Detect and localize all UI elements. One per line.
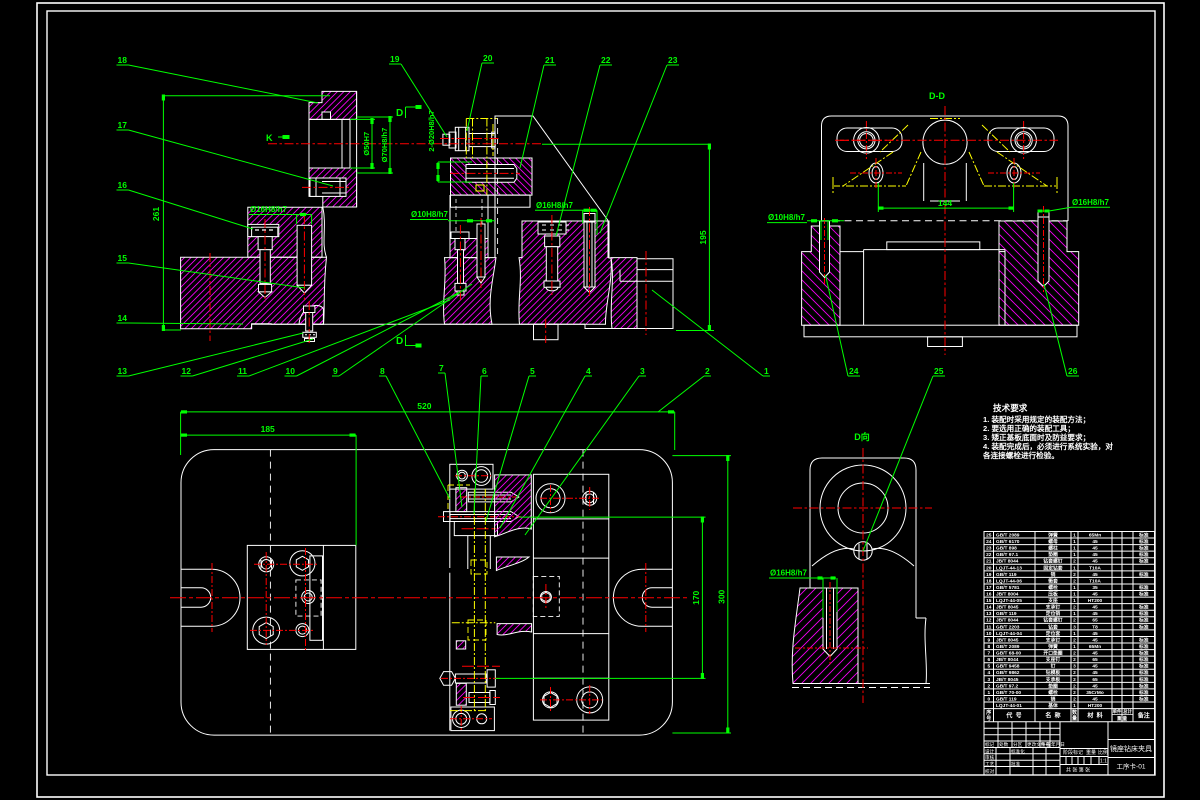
svg-text:23: 23 — [986, 546, 992, 552]
svg-text:45: 45 — [1092, 592, 1098, 598]
svg-text:8: 8 — [380, 366, 385, 376]
svg-text:300: 300 — [717, 589, 727, 603]
svg-text:JB/T 8004: JB/T 8004 — [996, 592, 1019, 598]
svg-text:65Mn: 65Mn — [1089, 644, 1101, 650]
svg-text:年月日: 年月日 — [1051, 741, 1065, 748]
svg-text:22: 22 — [601, 55, 611, 65]
svg-text:标准: 标准 — [1138, 591, 1149, 598]
svg-text:2: 2 — [1073, 670, 1076, 676]
svg-text:支承钉: 支承钉 — [1046, 636, 1061, 643]
svg-text:11: 11 — [986, 624, 991, 630]
svg-text:定位套: 定位套 — [1046, 630, 1061, 637]
svg-text:技术要求: 技术要求 — [993, 402, 1028, 413]
svg-text:共 张 第 张: 共 张 第 张 — [1066, 767, 1090, 774]
svg-text:GB/T 9862: GB/T 9862 — [996, 670, 1020, 676]
svg-text:10: 10 — [986, 631, 992, 637]
svg-text:45: 45 — [1092, 605, 1098, 611]
svg-text:1: 1 — [1073, 546, 1076, 552]
svg-text:HT200: HT200 — [1088, 598, 1103, 604]
svg-text:支承板: 支承板 — [1046, 676, 1061, 683]
svg-text:标准: 标准 — [1138, 669, 1149, 676]
svg-text:Ø10H8/h7: Ø10H8/h7 — [768, 213, 805, 222]
svg-text:阶段标记: 阶段标记 — [1063, 749, 1083, 756]
svg-text:支承钉: 支承钉 — [1046, 604, 1061, 611]
svg-text:签名: 签名 — [1041, 741, 1050, 748]
svg-text:8: 8 — [987, 644, 990, 650]
svg-text:12: 12 — [182, 366, 192, 376]
svg-text:标准: 标准 — [1138, 532, 1149, 539]
svg-text:15: 15 — [986, 598, 992, 604]
svg-text:2: 2 — [1073, 683, 1076, 689]
svg-text:45: 45 — [1092, 651, 1098, 657]
svg-text:各连接螺栓进行检验。: 各连接螺栓进行检验。 — [982, 450, 1059, 460]
svg-text:标准: 标准 — [1138, 551, 1149, 558]
svg-text:JB/T 8045: JB/T 8045 — [996, 605, 1019, 611]
svg-text:16: 16 — [118, 180, 128, 190]
svg-text:LQJT-44-04: LQJT-44-04 — [996, 631, 1022, 637]
svg-text:3: 3 — [1073, 664, 1076, 670]
svg-text:总计: 总计 — [1123, 708, 1132, 715]
svg-text:1: 1 — [1073, 598, 1076, 604]
svg-text:GB/T 119: GB/T 119 — [996, 611, 1017, 617]
svg-text:2: 2 — [1073, 637, 1076, 643]
svg-text:JB/T 8045: JB/T 8045 — [996, 677, 1019, 683]
svg-text:9: 9 — [987, 637, 990, 643]
svg-text:标准: 标准 — [1138, 643, 1149, 650]
svg-text:Ø16H8/h7: Ø16H8/h7 — [1072, 198, 1109, 207]
svg-text:钻套螺钉: 钻套螺钉 — [1043, 617, 1062, 624]
svg-text:2: 2 — [1073, 572, 1076, 578]
svg-text:GB/T 2089: GB/T 2089 — [996, 644, 1020, 650]
svg-text:GB/T 9458: GB/T 9458 — [996, 664, 1020, 670]
svg-text:螺栓: 螺栓 — [1048, 584, 1058, 591]
svg-text:1: 1 — [1073, 585, 1076, 591]
svg-text:195: 195 — [698, 230, 708, 244]
svg-text:处数: 处数 — [999, 741, 1009, 748]
svg-text:标准: 标准 — [1138, 538, 1149, 545]
svg-text:JB/T 8044: JB/T 8044 — [996, 657, 1019, 663]
svg-text:2: 2 — [1073, 559, 1076, 565]
svg-text:标准: 标准 — [1138, 545, 1149, 552]
svg-text:JB/T 8045: JB/T 8045 — [996, 637, 1019, 643]
svg-text:14: 14 — [986, 605, 992, 611]
svg-text:1: 1 — [987, 690, 990, 696]
svg-text:标准: 标准 — [1138, 584, 1149, 591]
svg-text:7: 7 — [987, 651, 990, 657]
svg-text:25: 25 — [986, 533, 992, 539]
svg-text:销: 销 — [1051, 571, 1056, 578]
svg-text:12: 12 — [986, 618, 992, 624]
svg-text:17: 17 — [986, 585, 992, 591]
svg-text:垫圈: 垫圈 — [1048, 682, 1058, 689]
svg-text:2: 2 — [705, 366, 710, 376]
svg-text:10: 10 — [286, 366, 296, 376]
svg-text:LQJT-44-13: LQJT-44-13 — [996, 565, 1022, 571]
svg-text:镜座钻床夹具: 镜座钻床夹具 — [1110, 744, 1152, 753]
svg-text:GB/T 119: GB/T 119 — [996, 572, 1017, 578]
svg-text:批准: 批准 — [1011, 761, 1021, 768]
svg-text:HT200: HT200 — [1088, 703, 1103, 709]
svg-text:备注: 备注 — [1137, 712, 1150, 720]
svg-text:支座: 支座 — [1048, 597, 1058, 604]
svg-text:Ø16H8/h7: Ø16H8/h7 — [536, 201, 573, 210]
svg-text:20: 20 — [986, 565, 992, 571]
svg-text:名 称: 名 称 — [1045, 712, 1060, 720]
svg-text:1: 1 — [1073, 631, 1076, 637]
svg-text:GB/T 97.2: GB/T 97.2 — [996, 683, 1018, 689]
svg-text:JB/T 8044: JB/T 8044 — [996, 559, 1019, 565]
svg-text:14: 14 — [118, 313, 128, 323]
svg-text:GB/T 2203: GB/T 2203 — [996, 624, 1020, 630]
svg-text:GB/T 5781: GB/T 5781 — [996, 585, 1020, 591]
svg-text:35: 35 — [1092, 585, 1098, 591]
svg-text:校对: 校对 — [985, 768, 995, 775]
svg-text:0: 0 — [987, 696, 990, 702]
svg-text:1: 1 — [1073, 703, 1076, 709]
svg-text:13: 13 — [986, 611, 992, 617]
svg-text:量: 量 — [1072, 715, 1077, 722]
svg-text:11: 11 — [238, 366, 247, 376]
svg-text:Ø16H8/h7: Ø16H8/h7 — [770, 569, 807, 578]
svg-text:标准: 标准 — [1138, 610, 1149, 617]
svg-text:GB/T 898: GB/T 898 — [996, 546, 1017, 552]
svg-text:标准: 标准 — [1138, 558, 1149, 565]
svg-text:24: 24 — [849, 366, 859, 376]
svg-text:45: 45 — [1092, 664, 1098, 670]
svg-text:重 量: 重 量 — [1117, 715, 1128, 722]
svg-text:5: 5 — [987, 664, 990, 670]
svg-text:261: 261 — [151, 207, 161, 221]
svg-text:1:1: 1:1 — [1100, 759, 1107, 765]
svg-text:标准: 标准 — [1138, 571, 1149, 578]
svg-text:LQJT-44-06: LQJT-44-06 — [996, 578, 1022, 584]
svg-text:设计: 设计 — [985, 748, 995, 755]
svg-text:1: 1 — [1073, 592, 1076, 598]
svg-text:5: 5 — [530, 366, 535, 376]
svg-text:1: 1 — [1073, 533, 1076, 539]
svg-text:45: 45 — [1092, 696, 1098, 702]
svg-text:18: 18 — [986, 578, 992, 584]
svg-text:45: 45 — [1092, 683, 1098, 689]
svg-text:6: 6 — [987, 657, 990, 663]
svg-text:GB/T 70-00: GB/T 70-00 — [996, 690, 1021, 696]
svg-text:6: 6 — [482, 366, 487, 376]
svg-text:1: 1 — [1073, 552, 1076, 558]
svg-text:35CrMo: 35CrMo — [1086, 690, 1104, 696]
svg-text:4: 4 — [987, 670, 990, 676]
svg-text:T10A: T10A — [1089, 578, 1101, 584]
svg-text:2: 2 — [1073, 696, 1076, 702]
svg-text:标准化: 标准化 — [1011, 748, 1025, 755]
svg-text:2: 2 — [1073, 578, 1076, 584]
svg-text:21: 21 — [545, 55, 555, 65]
svg-text:2: 2 — [1073, 618, 1076, 624]
svg-text:标准: 标准 — [1138, 689, 1149, 696]
svg-text:Ø10H8/h7: Ø10H8/h7 — [411, 210, 448, 219]
svg-text:2: 2 — [1073, 651, 1076, 657]
svg-text:25: 25 — [934, 366, 944, 376]
svg-text:7: 7 — [439, 363, 444, 373]
svg-text:材 料: 材 料 — [1086, 712, 1102, 720]
svg-text:弹簧: 弹簧 — [1048, 532, 1058, 539]
svg-text:1: 1 — [1073, 565, 1076, 571]
svg-text:1: 1 — [764, 366, 769, 376]
svg-text:开口垫圈: 开口垫圈 — [1043, 650, 1062, 657]
svg-text:20: 20 — [483, 53, 493, 63]
svg-text:标准: 标准 — [1138, 663, 1149, 670]
svg-text:螺柱: 螺柱 — [1048, 545, 1058, 552]
svg-text:标准: 标准 — [1138, 676, 1149, 683]
svg-text:65: 65 — [1092, 618, 1098, 624]
svg-text:标准: 标准 — [1138, 636, 1149, 643]
svg-text:45: 45 — [1092, 546, 1098, 552]
svg-text:标准: 标准 — [1138, 650, 1149, 657]
svg-text:45: 45 — [1092, 539, 1098, 545]
svg-text:GB/T 2089: GB/T 2089 — [996, 533, 1020, 539]
svg-text:17: 17 — [118, 120, 128, 130]
svg-text:GB/T 119: GB/T 119 — [996, 696, 1017, 702]
svg-text:26: 26 — [1068, 366, 1078, 376]
svg-text:GB/T 6170: GB/T 6170 — [996, 539, 1020, 545]
svg-text:D: D — [396, 108, 403, 119]
svg-text:2: 2 — [1073, 690, 1076, 696]
svg-text:JB/T 8044: JB/T 8044 — [996, 618, 1019, 624]
svg-text:LQJT-44-05: LQJT-44-05 — [996, 598, 1022, 604]
svg-text:45: 45 — [1092, 559, 1098, 565]
svg-text:工艺: 工艺 — [985, 762, 995, 767]
svg-text:标记: 标记 — [985, 741, 995, 748]
svg-text:销: 销 — [1051, 695, 1056, 702]
svg-text:3: 3 — [640, 366, 645, 376]
svg-text:45: 45 — [1092, 572, 1098, 578]
svg-text:D-D: D-D — [929, 91, 945, 101]
svg-text:钉: 钉 — [1051, 663, 1056, 670]
svg-text:Ø16H8/h7: Ø16H8/h7 — [250, 205, 287, 214]
svg-text:21: 21 — [986, 559, 992, 565]
svg-text:45: 45 — [1092, 670, 1098, 676]
svg-text:分区: 分区 — [1013, 741, 1023, 748]
svg-text:45: 45 — [1092, 631, 1098, 637]
svg-text:3: 3 — [987, 677, 990, 683]
svg-text:螺栓: 螺栓 — [1048, 689, 1058, 696]
svg-text:垫圈: 垫圈 — [1048, 551, 1058, 558]
svg-text:代 号: 代 号 — [1005, 712, 1021, 720]
svg-text:单件: 单件 — [1113, 708, 1122, 715]
svg-text:支座钉: 支座钉 — [1046, 656, 1061, 663]
svg-text:13: 13 — [118, 366, 128, 376]
svg-text:1: 1 — [1073, 539, 1076, 545]
svg-text:16: 16 — [986, 592, 992, 598]
svg-text:65: 65 — [1092, 677, 1098, 683]
svg-text:标准: 标准 — [1138, 695, 1149, 702]
svg-text:标准: 标准 — [1138, 604, 1149, 611]
svg-text:Ø70H8/h7: Ø70H8/h7 — [380, 128, 389, 163]
svg-text:45: 45 — [1092, 552, 1098, 558]
svg-text:钻套螺钉: 钻套螺钉 — [1043, 558, 1062, 565]
svg-text:15: 15 — [118, 253, 128, 263]
svg-text:标准: 标准 — [1138, 656, 1149, 663]
svg-text:185: 185 — [261, 424, 275, 434]
svg-text:19: 19 — [986, 572, 992, 578]
svg-text:钻套: 钻套 — [1048, 623, 1058, 630]
svg-text:螺母: 螺母 — [1048, 538, 1058, 545]
svg-text:衝套: 衝套 — [1047, 577, 1058, 584]
svg-text:钻模板: 钻模板 — [1046, 669, 1061, 676]
svg-text:GB/T 68-00: GB/T 68-00 — [996, 651, 1021, 657]
svg-text:D: D — [396, 336, 403, 347]
svg-text:号: 号 — [986, 715, 991, 722]
svg-text:22: 22 — [986, 552, 992, 558]
svg-text:24: 24 — [986, 539, 992, 545]
svg-text:GB/T 97.1: GB/T 97.1 — [996, 552, 1018, 558]
svg-text:144: 144 — [938, 198, 952, 208]
svg-text:标准: 标准 — [1138, 682, 1149, 689]
svg-text:520: 520 — [417, 401, 431, 411]
svg-text:4. 装配完成后，必须进行系统实验，对: 4. 装配完成后，必须进行系统实验，对 — [983, 441, 1113, 451]
svg-text:比例: 比例 — [1098, 749, 1108, 756]
svg-text:基体: 基体 — [1048, 702, 1058, 709]
svg-text:19: 19 — [390, 54, 400, 64]
svg-text:工序卡-01: 工序卡-01 — [1117, 762, 1146, 771]
svg-text:65: 65 — [1092, 657, 1098, 663]
svg-text:4: 4 — [586, 366, 591, 376]
svg-text:弹簧: 弹簧 — [1048, 643, 1058, 650]
svg-text:压板: 压板 — [1048, 591, 1058, 598]
svg-text:9: 9 — [333, 366, 338, 376]
svg-text:1: 1 — [1073, 644, 1076, 650]
svg-text:1: 1 — [1073, 611, 1076, 617]
svg-text:3: 3 — [1073, 624, 1076, 630]
svg-text:序: 序 — [985, 709, 991, 716]
svg-text:重量: 重量 — [1086, 749, 1096, 756]
svg-text:2: 2 — [1073, 605, 1076, 611]
svg-text:23: 23 — [668, 55, 678, 65]
svg-text:45: 45 — [1092, 611, 1098, 617]
svg-text:标准: 标准 — [1138, 617, 1149, 624]
svg-text:标准: 标准 — [1138, 623, 1149, 630]
svg-text:2: 2 — [1073, 677, 1076, 683]
svg-text:2: 2 — [1073, 657, 1076, 663]
svg-text:LQJT-44-01: LQJT-44-01 — [996, 703, 1022, 709]
svg-text:T8: T8 — [1092, 624, 1098, 630]
svg-text:Ø50H7: Ø50H7 — [362, 132, 371, 156]
svg-text:45: 45 — [1092, 637, 1098, 643]
svg-text:65Mn: 65Mn — [1089, 533, 1101, 539]
svg-text:固定钻套: 固定钻套 — [1043, 564, 1062, 571]
svg-text:18: 18 — [118, 55, 128, 65]
svg-text:定位销: 定位销 — [1046, 610, 1061, 617]
svg-text:170: 170 — [691, 590, 701, 604]
svg-text:2: 2 — [987, 683, 990, 689]
svg-text:审核: 审核 — [985, 754, 995, 761]
svg-text:K: K — [266, 133, 273, 143]
svg-text:T10A: T10A — [1089, 565, 1101, 571]
svg-text:D向: D向 — [854, 431, 870, 442]
